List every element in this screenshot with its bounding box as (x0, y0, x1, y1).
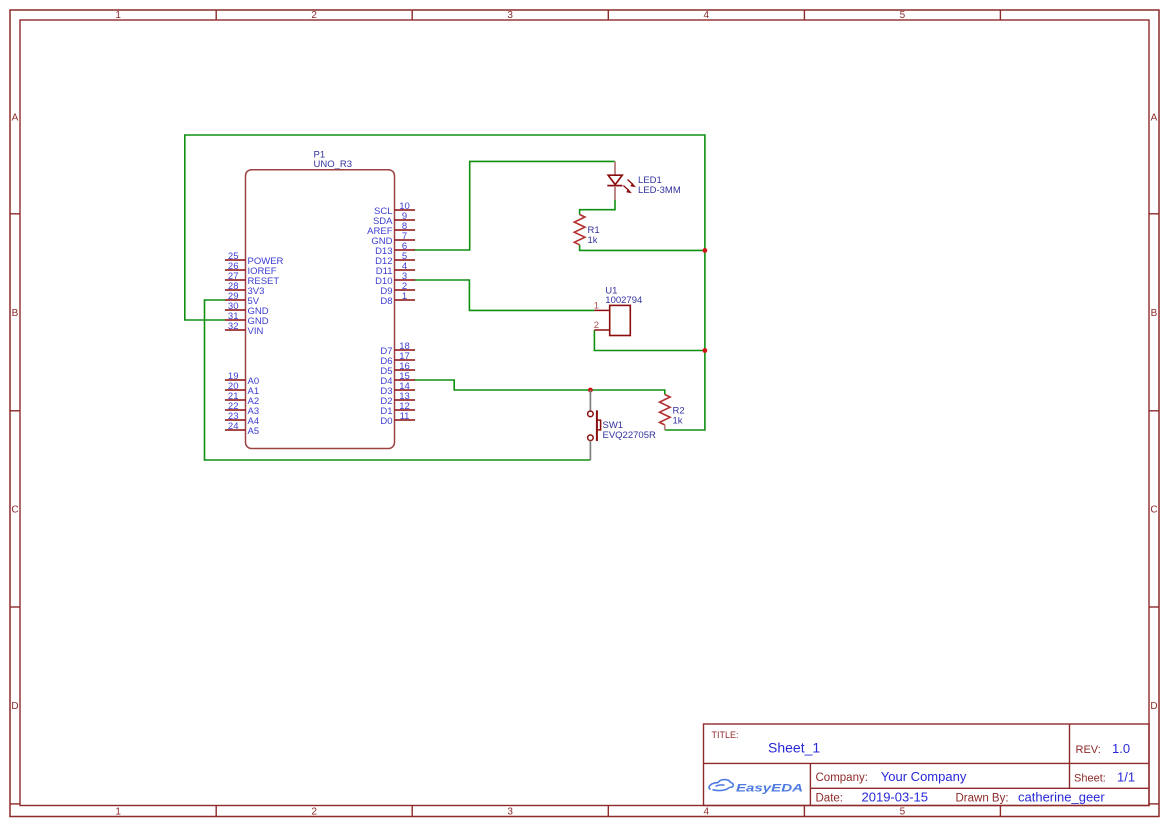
EasyEDA logo (709, 780, 803, 795)
P1 pin 5 D12 (375, 251, 415, 267)
LED LED1 triangle (608, 175, 622, 184)
junction dot R1 bus (703, 248, 708, 253)
SW1 value label EVQ22705R (603, 430, 656, 441)
P1 pin 2 D9 (380, 281, 415, 297)
svg-text:2: 2 (311, 807, 317, 818)
LED1 reference label (638, 175, 662, 186)
connector P1 value label UNO_R3 (314, 159, 353, 170)
svg-text:A5: A5 (248, 426, 260, 437)
Sheet value 1/1 (1117, 769, 1135, 784)
P1 pin 4 D11 (376, 261, 415, 277)
P1 pin 27 RESET (225, 271, 279, 287)
svg-text:1.0: 1.0 (1112, 741, 1130, 756)
wire U1 pin2 to right bus (594, 330, 705, 351)
SW1 bottom contact circle (588, 435, 594, 441)
switch SW1 top pin (589, 390, 591, 411)
row letters right A-D (1150, 112, 1157, 712)
svg-text:catherine_geer: catherine_geer (1018, 789, 1105, 804)
row letters left A-D (11, 112, 18, 712)
R2 value label 1k (673, 416, 683, 427)
P1 pin 30 GND (225, 301, 269, 317)
P1 pin 28 3V3 (225, 281, 264, 297)
R2 reference label (673, 406, 685, 417)
svg-text:2019-03-15: 2019-03-15 (862, 789, 929, 804)
connector P1 reference label (314, 150, 326, 161)
svg-text:Sheet:: Sheet: (1074, 772, 1106, 784)
wire D10 to U1 pin1 (415, 280, 595, 310)
connector P1 body (246, 170, 395, 449)
column tick marks top (216, 10, 1000, 20)
R1 reference label (588, 225, 600, 236)
U1 pin 1 (594, 300, 610, 311)
P1 pin 8 AREF (367, 221, 415, 237)
P1 pin 12 D1 (380, 401, 415, 417)
P1 pin 16 D5 (380, 361, 415, 377)
LED LED1 light arrow 2 (623, 186, 632, 194)
SW1 reference label (603, 420, 624, 431)
svg-text:1: 1 (115, 10, 121, 21)
svg-text:1: 1 (594, 300, 599, 311)
svg-text:4: 4 (704, 10, 710, 21)
switch SW1 bottom pin (589, 441, 591, 460)
P1 pin 32 VIN (225, 321, 263, 337)
svg-text:Sheet_1: Sheet_1 (768, 739, 820, 755)
resistor R2 body (660, 395, 671, 425)
svg-text:4: 4 (704, 807, 710, 818)
P1 pin 7 GND (371, 231, 415, 247)
P1 pin 13 D2 (380, 391, 415, 407)
P1 pin 21 A2 (225, 391, 259, 407)
column tick marks bottom (216, 806, 1000, 817)
REV value 1.0 (1112, 741, 1130, 756)
svg-text:A: A (12, 112, 19, 123)
wire R1 bottom to right bus (580, 245, 705, 251)
svg-text:A: A (1151, 112, 1158, 123)
P1 pin 20 A1 (225, 381, 259, 397)
svg-text:D: D (11, 701, 18, 712)
P1 pin 11 D0 (380, 411, 415, 427)
svg-text:2: 2 (311, 10, 317, 21)
SW1 actuator bar (597, 410, 601, 441)
P1 pin 17 D6 (380, 351, 415, 367)
svg-text:1: 1 (115, 807, 121, 818)
junction dot SW1/D4 (588, 388, 593, 393)
P1 pin 29 5V (225, 291, 260, 307)
Drawn By label (956, 792, 1009, 804)
P1 pin 9 SDA (373, 211, 415, 227)
Company label (816, 772, 868, 784)
svg-text:2: 2 (594, 320, 599, 331)
svg-text:D8: D8 (380, 296, 392, 307)
Drawn By value catherine_geer (1018, 789, 1105, 804)
svg-text:Date:: Date: (816, 792, 844, 804)
P1 pin 3 D10 (375, 271, 415, 287)
LED1 value label LED-3MM (638, 185, 681, 196)
svg-text:UNO_R3: UNO_R3 (314, 159, 353, 170)
wire D13 to LED top (415, 161, 615, 250)
REV label (1076, 744, 1101, 756)
svg-text:B: B (12, 308, 19, 319)
svg-text:24: 24 (228, 421, 239, 432)
R1 value label 1k (588, 235, 598, 246)
svg-text:5: 5 (900, 807, 906, 818)
U1 reference label (605, 286, 617, 297)
Company value Your Company (881, 769, 967, 784)
P1 pin 18 D7 (380, 341, 415, 357)
svg-text:REV:: REV: (1076, 744, 1101, 756)
svg-text:32: 32 (228, 321, 239, 332)
SW1 top contact circle (588, 411, 594, 417)
Date value 2019-03-15 (862, 789, 929, 804)
svg-text:D0: D0 (380, 416, 392, 427)
LED LED1 light arrow 1 (628, 180, 637, 188)
P1 pin 19 A0 (225, 371, 259, 387)
svg-text:TITLE:: TITLE: (712, 730, 739, 740)
P1 pin 14 D3 (380, 381, 415, 397)
P1 pin 22 A3 (225, 401, 259, 417)
LED D1 top lead (614, 161, 616, 175)
svg-text:1: 1 (402, 291, 407, 302)
LED LED1 bottom lead (614, 186, 616, 200)
title block outline (704, 724, 1150, 806)
P1 pin 24 A5 (225, 421, 259, 437)
column numbers bottom 1-5 (115, 807, 905, 818)
wire 5V pin29 down and along bottom to SW1 (205, 300, 591, 460)
P1 pin 31 GND (225, 311, 269, 327)
wire GND pin31 loop up over top and down right bus (185, 135, 705, 430)
svg-text:1/1: 1/1 (1117, 769, 1135, 784)
component U1 body (610, 305, 631, 335)
svg-text:1k: 1k (673, 416, 683, 427)
svg-text:B: B (1151, 308, 1158, 319)
wire D4 to SW1/R2 (415, 380, 665, 395)
LED LED1 cathode bar (607, 185, 622, 187)
U1 pin 2 (594, 320, 610, 331)
svg-text:EasyEDA: EasyEDA (736, 783, 803, 795)
U1 value label 1002794 (605, 295, 642, 306)
title block TITLE label (712, 730, 739, 740)
P1 pin 15 D4 (380, 371, 415, 387)
P1 pin 25 POWER (225, 251, 284, 267)
Date label (816, 792, 844, 804)
R2 lead bottom (664, 425, 666, 430)
svg-text:11: 11 (400, 411, 410, 422)
svg-text:3: 3 (507, 807, 513, 818)
svg-text:Company:: Company: (816, 772, 868, 784)
wire LED bottom to R1 top (580, 200, 615, 215)
row tick marks left (10, 214, 20, 804)
row tick marks right (1149, 214, 1159, 804)
P1 pin 23 A4 (225, 411, 259, 427)
P1 pin 6 D13 (375, 241, 415, 257)
svg-text:1002794: 1002794 (605, 295, 642, 306)
svg-text:5: 5 (900, 10, 906, 21)
svg-text:EVQ22705R: EVQ22705R (603, 430, 656, 441)
Sheet label (1074, 772, 1106, 784)
svg-text:D: D (1150, 701, 1157, 712)
P1 pin 26 IOREF (225, 261, 277, 277)
title value Sheet_1 (768, 739, 820, 755)
svg-text:Your Company: Your Company (881, 769, 967, 784)
svg-text:LED-3MM: LED-3MM (638, 185, 681, 196)
svg-text:C: C (1150, 504, 1157, 515)
P1 pin 1 D8 (380, 291, 415, 307)
P1 pin 10 SCL (374, 201, 415, 217)
svg-text:1k: 1k (588, 235, 598, 246)
svg-text:3: 3 (507, 10, 513, 21)
svg-text:C: C (11, 504, 18, 515)
svg-text:Drawn By:: Drawn By: (956, 792, 1009, 804)
svg-text:VIN: VIN (248, 326, 264, 337)
resistor R1 body (574, 215, 585, 245)
column numbers top 1-5 (115, 10, 905, 21)
junction dot U1 bus (703, 348, 708, 353)
